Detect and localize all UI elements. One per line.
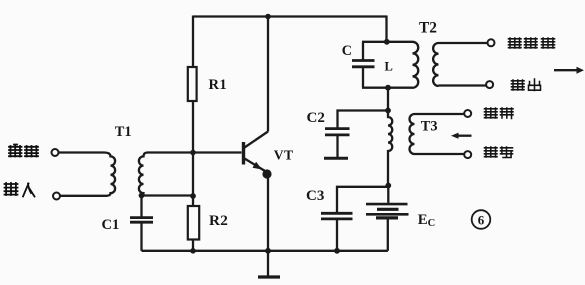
wire junction down to secondary-bottom junction xyxy=(192,153,194,197)
node R2-bottom junction xyxy=(190,248,196,254)
svg-text:VT: VT xyxy=(274,148,294,163)
wire emitter vertical xyxy=(267,174,269,251)
ground xyxy=(258,251,280,277)
wire tank cap bottom lead xyxy=(362,67,364,88)
svg-text:C2: C2 xyxy=(307,110,325,126)
svg-text:R2: R2 xyxy=(209,212,228,229)
label AM wave 调幅波 xyxy=(509,38,555,48)
label VT xyxy=(274,148,294,163)
node C2 junction xyxy=(385,108,391,114)
transformer T3 secondary winding xyxy=(410,114,415,154)
svg-text:L: L xyxy=(385,60,393,74)
svg-text:C: C xyxy=(342,43,352,59)
battery EC xyxy=(366,204,409,218)
wire C2 bottom lead xyxy=(336,135,338,157)
capacitor C2 xyxy=(325,129,350,135)
wire battery bottom lead xyxy=(387,220,389,251)
wire T3 output top xyxy=(415,113,465,115)
svg-text:6: 6 xyxy=(478,213,485,228)
terminal output bottom xyxy=(486,81,493,88)
wire T2 output top xyxy=(439,42,488,44)
label T2 xyxy=(419,20,437,37)
svg-text:T2: T2 xyxy=(419,20,437,37)
node emitter-bottom junction xyxy=(265,248,271,254)
label C xyxy=(342,43,352,59)
node battery top junction xyxy=(385,183,391,189)
label EC xyxy=(418,212,435,229)
transformer T3 primary winding xyxy=(388,111,392,186)
svg-text:T3: T3 xyxy=(421,118,438,134)
node collector-top junction xyxy=(265,14,271,20)
wire left vertical from top rail to R1 xyxy=(192,16,194,68)
label T1 xyxy=(115,124,132,140)
terminal carrier input bottom xyxy=(53,193,60,200)
label T3 xyxy=(421,118,438,134)
wire T3 output bottom xyxy=(415,153,465,155)
terminal output top xyxy=(488,39,495,46)
resistor R1 xyxy=(188,67,197,101)
label output 输出 xyxy=(512,79,541,91)
figure number 6 circled xyxy=(472,210,491,229)
wire R2 top lead xyxy=(192,196,194,206)
wire C3 top lead xyxy=(337,187,388,213)
transistor VT xyxy=(244,132,272,179)
wire tank bottom to C2 junction xyxy=(387,88,389,111)
label C2 xyxy=(307,110,325,126)
wire tank bottom xyxy=(362,87,413,89)
wire secondary bottom to R2 junction xyxy=(142,194,194,196)
node R2-top junction xyxy=(190,193,196,199)
ground C2 bar xyxy=(324,157,348,160)
wire C1 top lead xyxy=(140,196,142,218)
label input 输入 xyxy=(5,183,35,197)
wire C3 bottom lead xyxy=(336,219,338,251)
label R1 xyxy=(209,77,227,93)
wire C2 top lead xyxy=(338,111,389,129)
svg-text:C3: C3 xyxy=(306,188,324,204)
capacitor C1 xyxy=(130,218,153,223)
label L xyxy=(385,60,393,74)
arrow modulation direction xyxy=(451,133,472,139)
wire R1 bottom to base-wire junction xyxy=(192,101,194,153)
wire R2 bottom lead xyxy=(192,240,194,251)
wire T2 output bottom xyxy=(439,84,487,86)
svg-text:R1: R1 xyxy=(209,77,227,93)
wire top rail xyxy=(193,15,387,17)
terminal modulation top xyxy=(464,110,471,117)
transformer T1 primary winding xyxy=(59,153,116,196)
terminal carrier input top xyxy=(52,149,59,156)
terminal modulation bottom xyxy=(464,151,471,158)
svg-text:C1: C1 xyxy=(102,217,120,233)
node C3 bottom junction xyxy=(334,248,340,254)
label modulation 调制 xyxy=(485,108,514,119)
node tank bottom junction xyxy=(385,85,391,91)
inductor L tank xyxy=(413,42,419,88)
label carrier 载波 xyxy=(9,145,38,157)
label R2 xyxy=(209,212,228,229)
wire tank top xyxy=(362,41,413,43)
wire base wire from T1 secondary to transistor base xyxy=(147,151,242,153)
wire C1 bottom lead xyxy=(140,222,142,251)
node base-wire / R1R2 junction xyxy=(190,150,196,156)
resistor R2 xyxy=(188,206,199,240)
label signal 信号 xyxy=(485,147,513,158)
wire right vertical top rail to tank xyxy=(385,16,387,42)
wire tank cap top lead xyxy=(362,42,364,60)
node tank top junction xyxy=(384,39,390,45)
capacitor C3 xyxy=(321,213,353,219)
transformer T1 secondary winding xyxy=(139,153,148,196)
wire bottom rail xyxy=(142,250,388,252)
transformer T2 secondary winding xyxy=(433,43,438,86)
arrow output direction xyxy=(554,67,584,74)
wire collector vertical xyxy=(267,17,269,132)
node T1 secondary bottom junction xyxy=(139,193,145,199)
label C1 xyxy=(102,217,120,233)
svg-text:T1: T1 xyxy=(115,124,132,140)
label C3 xyxy=(306,188,324,204)
capacitor C tank xyxy=(352,61,375,67)
wire battery top lead xyxy=(387,186,389,203)
